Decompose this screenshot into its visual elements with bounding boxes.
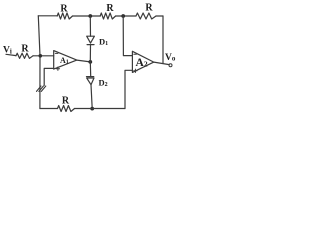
svg-text:R: R [106, 3, 114, 14]
node top D1 junction [88, 14, 92, 18]
wire left rail [38, 16, 40, 109]
terminal Vo [169, 64, 172, 67]
resistor R (bottom) [58, 106, 75, 112]
wire to A1 inverting input [33, 55, 54, 57]
wire D1 top lead [89, 16, 91, 36]
wire [73, 15, 101, 17]
wire [156, 15, 163, 17]
wire up to A2 plus input [125, 70, 132, 108]
resistor R (input) [16, 53, 33, 58]
wire bottom rail left [40, 108, 58, 110]
wire D2 top lead [89, 62, 91, 76]
resistor R (top-right feedback of A2) [136, 13, 156, 19]
A2 minus pin [134, 53, 137, 55]
A1 minus pin [55, 52, 58, 54]
svg-text:A1: A1 [60, 56, 69, 66]
wire [116, 15, 136, 17]
resistor R (top-left feedback) [57, 13, 72, 19]
op-amp A1 [54, 51, 77, 70]
svg-text:R: R [145, 3, 153, 14]
node N1 junction [39, 54, 43, 58]
svg-text:D1: D1 [99, 37, 108, 48]
wire D1 bottom lead [89, 45, 91, 62]
svg-text:A2: A2 [136, 57, 148, 69]
wire A2 feedback from R [162, 16, 164, 63]
wire bottom rail right [75, 108, 126, 110]
svg-text:R: R [21, 44, 29, 55]
svg-text:Vo: Vo [165, 53, 176, 63]
A2 plus pin [134, 69, 137, 72]
wire input stub [6, 54, 16, 55]
op-amp A2 [132, 51, 153, 72]
svg-text:R: R [62, 96, 70, 107]
wire A1 output [77, 60, 91, 62]
node A1 output junction [88, 60, 92, 64]
resistor R (top-middle) [100, 13, 115, 19]
wire D2 bottom lead [91, 85, 92, 109]
ground [37, 86, 46, 91]
svg-text:D2: D2 [99, 78, 108, 89]
A1 plus pin [56, 67, 59, 70]
diode D1 [87, 36, 95, 43]
svg-text:R: R [60, 3, 68, 14]
node N4 junction [121, 14, 125, 18]
wire top rail [38, 15, 57, 17]
diode D2 [87, 76, 94, 78]
node D2 bottom junction [90, 107, 94, 111]
wire N4 down to A2 minus input [123, 16, 132, 56]
wire A2 output [154, 62, 169, 65]
wire A1 plus to ground [44, 68, 54, 85]
